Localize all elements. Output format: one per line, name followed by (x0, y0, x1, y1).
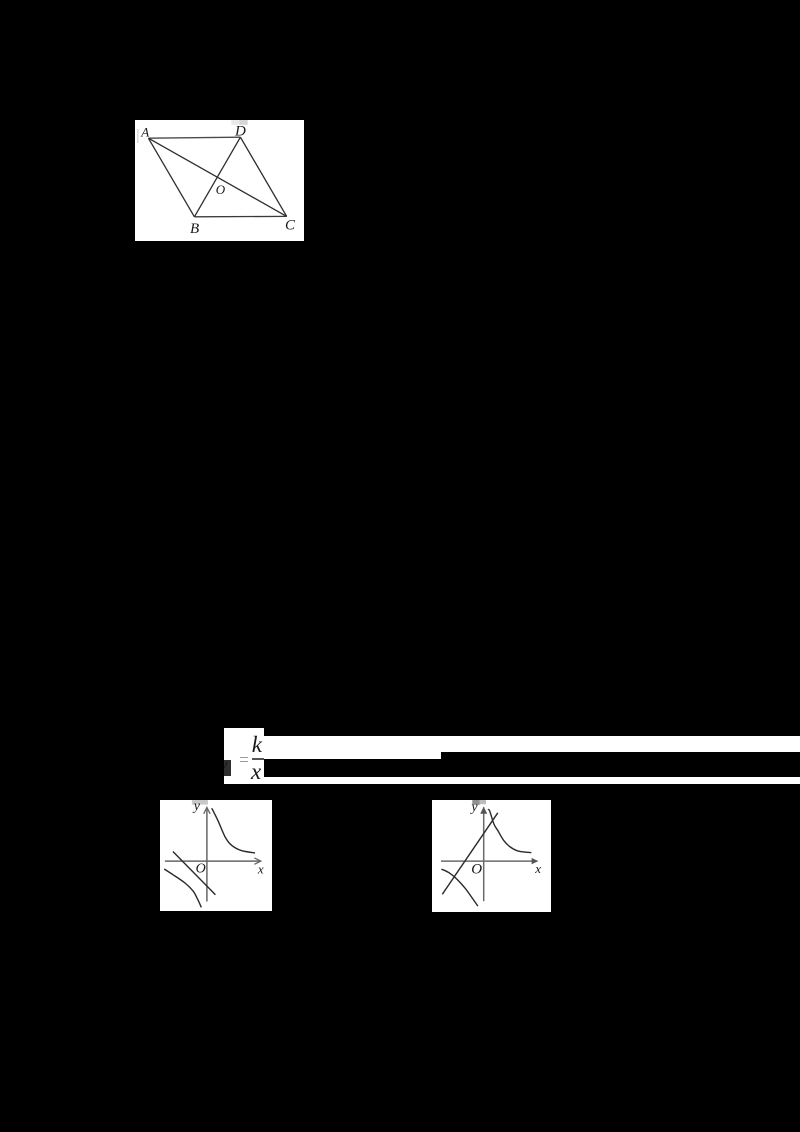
side AB (149, 138, 195, 217)
white strip 1 right part (441, 736, 800, 753)
faint tick left of A (138, 129, 139, 143)
white image background (135, 120, 304, 241)
x-axis (165, 860, 260, 862)
numerator k (252, 733, 266, 757)
fraction bar (252, 758, 264, 760)
equation y = k/x image box (224, 728, 264, 785)
hyperbola branch quadrant I (212, 808, 255, 853)
y-axis arrowhead (204, 807, 210, 813)
svg-text:y: y (192, 800, 201, 814)
figure 2: left answer graph (hyperbola k>0 with negative-slope line) (160, 800, 272, 911)
svg-text:x: x (534, 861, 541, 876)
side AD (149, 137, 241, 138)
side DC (241, 137, 287, 216)
side BC (195, 215, 287, 217)
hyperbola branch quadrant III (164, 869, 201, 907)
svg-text:A: A (141, 124, 150, 139)
svg-text:O: O (216, 182, 226, 197)
svg-text:O: O (471, 861, 482, 877)
diagonal AC (149, 138, 287, 216)
gray scan patches at top (472, 800, 480, 805)
svg-text:D: D (234, 123, 246, 139)
white image background (432, 800, 551, 912)
gray scan patch above D (232, 120, 240, 125)
gray scan patch at top (192, 800, 208, 805)
svg-text:x: x (257, 861, 264, 876)
white strip 1 left part (264, 736, 442, 759)
svg-text:y: y (469, 800, 478, 815)
straight line negative slope (173, 851, 216, 894)
figure 3: right answer graph (hyperbola k>0 with positive-slope line) (432, 800, 551, 912)
straight line positive slope (442, 813, 498, 895)
hyperbola branch quadrant I (488, 809, 531, 852)
hyperbola branch quadrant III (441, 869, 478, 906)
denominator x (251, 760, 265, 782)
x-axis arrowhead (254, 858, 260, 864)
white strip 2 (264, 777, 800, 784)
y-axis (483, 807, 485, 901)
x-axis arrowhead (532, 858, 539, 864)
y-axis arrowhead (480, 806, 487, 813)
svg-text:B: B (190, 221, 199, 237)
white image background (160, 800, 272, 911)
diagonal DB (195, 137, 241, 217)
figure 1: parallelogram ABCD image box (135, 120, 304, 241)
svg-text:O: O (196, 861, 206, 876)
equals sign (240, 757, 248, 759)
dark patch with letter y (224, 760, 231, 776)
x-axis (441, 860, 538, 862)
y-axis (206, 808, 208, 902)
svg-text:C: C (285, 217, 296, 233)
